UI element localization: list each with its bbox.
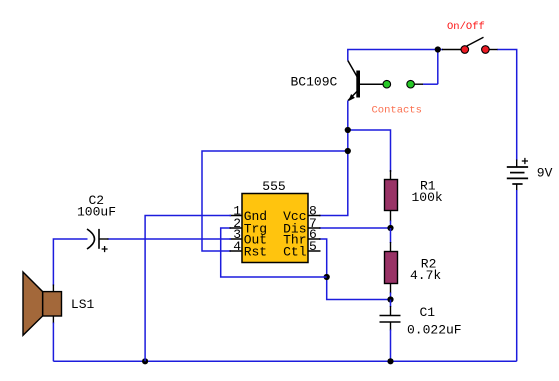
contact dot left (green) (383, 80, 391, 88)
resistor R1 bottom lead (390, 211, 392, 222)
junction A emitter/R1 (345, 127, 351, 133)
capacitor C1 top plate (380, 315, 401, 317)
svg-text:9V: 9V (537, 166, 553, 181)
pin 2 stub (230, 227, 243, 229)
transistor Q1 base lead to contact (360, 83, 384, 85)
wire Thr pin 6 to junction E and down (319, 239, 391, 300)
wire battery bottom to rail (516, 190, 518, 361)
battery B1 bottom stub (516, 184, 518, 191)
switch S1 lever (467, 37, 484, 46)
pin 6 stub (308, 238, 321, 240)
svg-text:100k: 100k (412, 190, 443, 205)
wire junction C to R2 top (390, 228, 392, 243)
svg-text:0.022uF: 0.022uF (407, 323, 462, 338)
pin 7 stub (308, 227, 321, 229)
svg-text:Rst: Rst (244, 245, 267, 260)
wire R2 bottom to junction D (390, 293, 392, 300)
junction E Trg/Thr tie (324, 274, 330, 280)
capacitor C2 plus sign (102, 246, 108, 252)
switch S1 throw red dot (482, 46, 490, 54)
svg-text:4: 4 (233, 239, 241, 254)
capacitor C1 top lead (390, 306, 392, 316)
battery B1 plus sign (522, 158, 528, 164)
capacitor C2 right lead (99, 238, 109, 240)
contact right lead (black) (414, 83, 423, 85)
wire contacts horizontal (423, 83, 438, 85)
wire ground rail (53, 360, 516, 362)
switch S1 lead left (black) (442, 49, 461, 51)
speaker LS1 cone (23, 272, 43, 335)
svg-text:C1: C1 (420, 305, 436, 320)
svg-text:Contacts: Contacts (372, 105, 422, 117)
svg-text:LS1: LS1 (71, 297, 95, 312)
battery B1 plate short 1 (510, 172, 525, 174)
wire Gnd pin 1 left and down to rail (145, 216, 231, 362)
svg-text:BC109C: BC109C (291, 75, 338, 90)
pin 4 stub (230, 250, 243, 252)
capacitor C2 straight plate (98, 229, 100, 249)
junction at switch/contacts node (435, 46, 441, 52)
wire Dis pin 7 to junction C (319, 227, 391, 229)
capacitor C1 bottom plate (380, 321, 401, 323)
wire switch-left stub blue (438, 49, 443, 51)
junction D R2/C1 node (387, 296, 393, 302)
battery B1 plate long 2 (507, 177, 528, 179)
wire junction D to C1 top (390, 300, 392, 308)
wire emitter down to junction A (347, 100, 349, 130)
capacitor C2 curved plate (87, 229, 95, 249)
wire C1 bottom to rail (390, 330, 392, 362)
resistor R1 body (385, 180, 398, 211)
svg-text:On/Off: On/Off (447, 21, 485, 33)
switch S1 pole red dot (461, 46, 469, 54)
wire contacts vertical to top rail (437, 50, 439, 85)
contact dot right (green) (407, 80, 415, 88)
resistor R2 bottom lead (390, 284, 392, 294)
battery B1 plate long 1 (507, 166, 528, 168)
pin 1 stub (230, 215, 243, 217)
transistor Q1 emitter arrowhead (348, 94, 355, 101)
svg-text:4.7k: 4.7k (410, 268, 441, 283)
pin 5 stub (308, 250, 321, 252)
speaker LS1 bottom lead (52, 316, 54, 324)
svg-text:Ctl: Ctl (283, 245, 307, 260)
svg-text:555: 555 (262, 179, 285, 194)
IC U1 555 body (242, 194, 308, 263)
wire Trg pin 2 left down to junction E (221, 228, 327, 277)
junction rail/C1 (387, 358, 393, 364)
wire junction A to junction B (347, 130, 349, 151)
svg-text:100uF: 100uF (77, 205, 116, 220)
wire R1 bottom to Dis junction (390, 221, 392, 229)
pin 3 stub (230, 238, 243, 240)
wire top rail from collector to switch (348, 50, 438, 61)
wire junction B down to Vcc pin 8 (319, 151, 348, 216)
transistor Q1 BC109C body bar (356, 71, 360, 98)
resistor R2 top lead (390, 242, 392, 252)
switch S1 lead right (black) (489, 49, 497, 51)
junction rail/Gnd (142, 358, 148, 364)
battery B1 top lead (516, 160, 518, 168)
svg-text:5: 5 (309, 239, 317, 254)
wire junction B left long to Rst (202, 151, 348, 251)
resistor R1 top lead (390, 170, 392, 180)
battery B1 plate short 2 (512, 183, 522, 185)
capacitor C1 bottom lead (390, 322, 392, 331)
speaker LS1 top lead (52, 285, 54, 293)
resistor R2 body (385, 252, 398, 284)
wire C2 left to speaker top (53, 239, 87, 286)
junction C R1/R2/Dis (387, 225, 393, 231)
junction B supply node (345, 148, 351, 154)
wire switch right to battery top (497, 50, 517, 161)
wire junction A to R1 top (348, 130, 391, 172)
wire speaker bottom to rail (52, 323, 54, 362)
transistor Q1 emitter diagonal (348, 92, 357, 101)
speaker LS1 driver box (43, 292, 62, 316)
pin 8 stub (308, 215, 321, 217)
transistor Q1 collector diagonal (348, 61, 357, 77)
wire Out pin 3 to C2 (108, 238, 232, 240)
